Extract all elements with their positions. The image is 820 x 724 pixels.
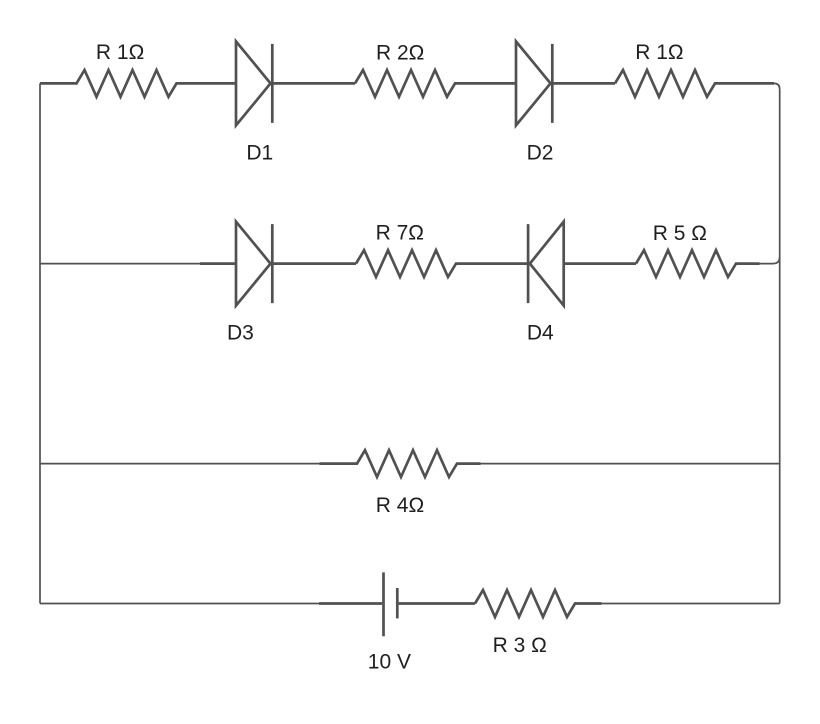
diode D4 triangle (points left) [530, 222, 564, 306]
wire row2 left thin segment [40, 263, 200, 265]
svg-text:D3: D3 [227, 322, 254, 345]
resistor R5 (R 5 ohm) [636, 250, 760, 277]
wire D4 to R5 [564, 262, 636, 265]
diode D1 triangle [236, 41, 271, 125]
wire top-right rounded corner [769, 83, 780, 89]
svg-text:R 5 Ω: R 5 Ω [653, 222, 707, 245]
svg-text:D4: D4 [527, 322, 554, 345]
resistor R7 (R 7 ohm) [356, 250, 528, 277]
resistor R4 with leads (R 4 ohm) [320, 450, 481, 477]
wire D2 to R1b [552, 82, 615, 85]
resistor R2 (R 2 ohm) [355, 70, 516, 97]
resistor R1 top-left with leads (R 1 ohm) [40, 70, 236, 97]
wire D3 to R7 [272, 262, 356, 265]
wire bottom right segment [602, 603, 780, 605]
diode D1 cathode bar [271, 44, 274, 123]
svg-text:10 V: 10 V [368, 651, 411, 674]
battery long plate [382, 572, 385, 636]
wire row2 right thin curve into right bus [760, 257, 780, 264]
diode D2 cathode bar [551, 44, 554, 123]
wire right vertical bus [779, 89, 781, 603]
diode D4 cathode bar [527, 224, 530, 303]
svg-text:R 1Ω: R 1Ω [635, 41, 683, 64]
wire row3 right thin segment [481, 463, 780, 465]
svg-text:R 2Ω: R 2Ω [376, 41, 424, 64]
wire bottom left segment [40, 603, 319, 605]
svg-text:D2: D2 [527, 142, 554, 165]
diode D2 triangle [516, 41, 551, 125]
wire D1 to R2 [272, 82, 355, 85]
resistor R1b top-right (R 1 ohm) [615, 70, 774, 97]
svg-text:D1: D1 [246, 142, 273, 165]
diode D3 cathode bar [271, 224, 274, 303]
svg-text:R 3 Ω: R 3 Ω [493, 634, 547, 657]
wire battery to R3 [399, 602, 475, 605]
wire left vertical bus [39, 83, 41, 603]
resistor R3 (R 3 ohm) [475, 590, 602, 617]
diode D3 triangle [236, 222, 271, 306]
wire battery left lead [319, 602, 382, 605]
svg-text:R 1Ω: R 1Ω [96, 41, 144, 64]
svg-text:R 4Ω: R 4Ω [376, 494, 424, 517]
svg-text:R 7Ω: R 7Ω [376, 222, 424, 245]
wire D3 left lead [200, 262, 236, 265]
wire row3 left thin segment [40, 463, 320, 465]
battery short plate [396, 588, 399, 618]
